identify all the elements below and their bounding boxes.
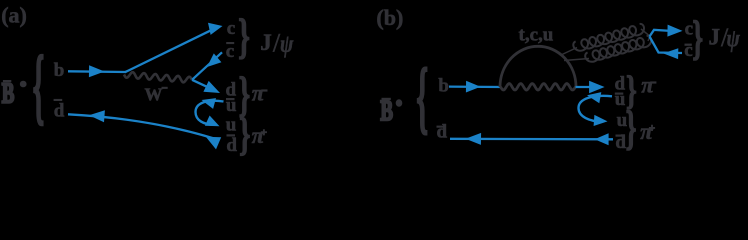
svg-text:B: B — [2, 78, 15, 110]
svg-text:}: } — [238, 9, 250, 63]
svg-text:}: } — [626, 102, 637, 155]
svg-text:(a): (a) — [1, 3, 27, 28]
svg-text:}: } — [239, 110, 250, 160]
svg-text:c: c — [227, 18, 235, 39]
svg-text:c: c — [684, 40, 692, 61]
svg-text:{: { — [416, 53, 428, 142]
svg-text:c: c — [226, 41, 234, 62]
svg-text:π: π — [641, 73, 655, 98]
svg-text:d: d — [226, 135, 237, 156]
svg-text:J: J — [709, 25, 721, 50]
svg-text:ψ: ψ — [280, 30, 294, 58]
svg-text:b: b — [438, 76, 449, 97]
svg-text:J: J — [260, 30, 272, 55]
svg-text:t,c,u: t,c,u — [519, 25, 554, 46]
svg-text:b: b — [54, 60, 65, 81]
svg-text:π: π — [640, 119, 654, 144]
svg-text:ψ: ψ — [727, 24, 741, 52]
svg-text:c: c — [685, 19, 693, 40]
svg-text:W: W — [145, 85, 163, 105]
svg-text:(b): (b) — [376, 5, 403, 30]
svg-text:π: π — [252, 123, 266, 148]
svg-text:d: d — [54, 100, 65, 121]
svg-text:u: u — [615, 89, 626, 110]
svg-text:{: { — [33, 39, 45, 132]
svg-text:π: π — [252, 80, 266, 105]
svg-text:d: d — [437, 122, 448, 143]
svg-text:u: u — [226, 115, 237, 136]
svg-text:}: } — [692, 12, 703, 65]
